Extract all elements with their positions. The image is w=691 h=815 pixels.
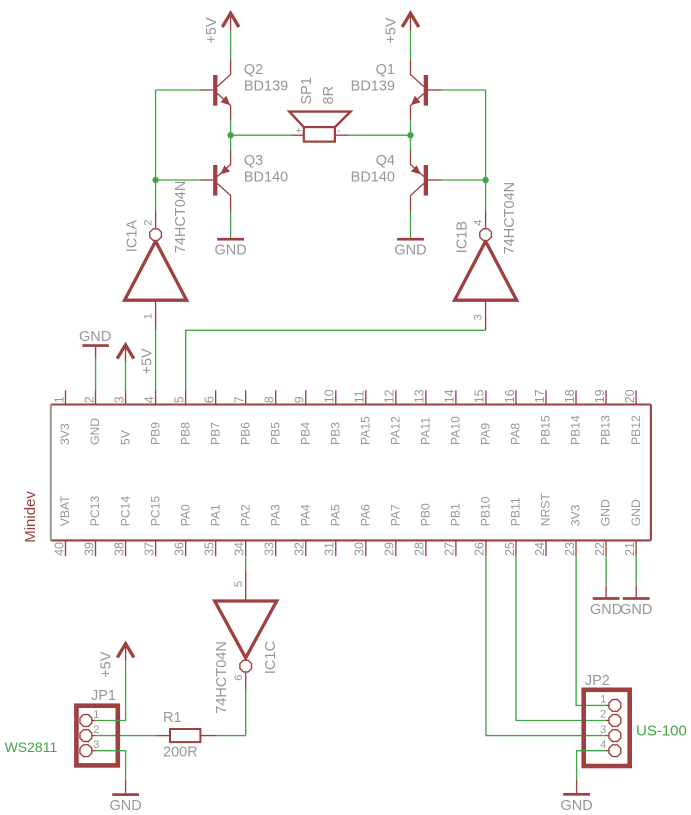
wire +5V to Q1 collector xyxy=(410,31,412,60)
svg-text:PB8: PB8 xyxy=(178,422,192,445)
svg-text:17: 17 xyxy=(533,389,547,403)
pin 15 PA9 (Minidev top) xyxy=(473,389,493,445)
wire Q2 emitter to node xyxy=(230,120,232,136)
svg-text:GND: GND xyxy=(599,499,613,526)
svg-text:JP1: JP1 xyxy=(91,688,116,704)
svg-text:74HCT04N: 74HCT04N xyxy=(502,182,518,255)
svg-text:R1: R1 xyxy=(163,710,182,726)
svg-text:37: 37 xyxy=(142,542,156,556)
svg-text:3: 3 xyxy=(473,314,485,320)
pin 34 PA2 (Minidev bottom) xyxy=(232,504,252,556)
label BD139 (Q1) xyxy=(351,79,395,95)
svg-text:WS2811: WS2811 xyxy=(5,739,58,755)
wire pin21 to GND xyxy=(635,556,637,586)
svg-text:5: 5 xyxy=(172,396,186,403)
pin 30 PA6 (Minidev bottom) xyxy=(353,504,373,556)
svg-text:PA6: PA6 xyxy=(359,504,373,526)
svg-text:Minidev: Minidev xyxy=(22,491,39,543)
svg-text:Q2: Q2 xyxy=(244,62,263,78)
transistor Q4 BD140 xyxy=(411,151,442,212)
svg-text:40: 40 xyxy=(52,542,66,556)
svg-text:6: 6 xyxy=(202,396,216,403)
svg-text:28: 28 xyxy=(413,542,427,556)
label JP1 xyxy=(91,688,116,704)
svg-text:GND: GND xyxy=(590,602,622,618)
wire Q4 base xyxy=(442,179,486,181)
wire JP1 pin2 to R1 xyxy=(96,735,157,737)
pin 5 PB8 (Minidev top) xyxy=(172,390,192,445)
pin 1 3V3 (Minidev top) xyxy=(52,390,72,445)
pin 14 PA10 (Minidev top) xyxy=(443,389,463,445)
svg-text:3V3: 3V3 xyxy=(58,423,72,445)
svg-text:4: 4 xyxy=(473,220,485,226)
pin 8 PB5 (Minidev top) xyxy=(263,390,283,445)
pin 27 PB1 (Minidev bottom) xyxy=(443,503,463,556)
svg-text:BD140: BD140 xyxy=(351,170,395,186)
transistor Q1 BD139 xyxy=(411,60,442,120)
ground under Q3 xyxy=(214,238,246,259)
svg-text:11: 11 xyxy=(353,390,367,403)
svg-text:20: 20 xyxy=(623,389,637,403)
pin 22 GND (Minidev bottom) xyxy=(593,499,613,556)
pin 26 PB10 (Minidev bottom) xyxy=(473,496,493,556)
svg-text:8: 8 xyxy=(263,396,277,403)
svg-text:PA4: PA4 xyxy=(298,504,312,526)
svg-text:+5V: +5V xyxy=(384,17,400,44)
svg-text:13: 13 xyxy=(413,389,427,403)
label JP2 xyxy=(585,673,610,689)
label 200R xyxy=(163,745,198,761)
label Q4 xyxy=(376,153,395,169)
resistor R1 xyxy=(156,729,217,742)
svg-text:36: 36 xyxy=(172,542,186,556)
svg-text:24: 24 xyxy=(533,542,547,556)
pin 4 PB9 (Minidev top) xyxy=(142,390,162,445)
pin 36 PA0 (Minidev bottom) xyxy=(172,504,192,556)
svg-text:Q4: Q4 xyxy=(376,153,395,169)
wire Q3 emitter to node xyxy=(230,135,232,150)
svg-text:12: 12 xyxy=(383,389,397,403)
svg-text:PB5: PB5 xyxy=(268,422,282,445)
pin 18 PB14 (Minidev top) xyxy=(563,389,583,445)
pin 40 VBAT (Minidev bottom) xyxy=(52,495,72,556)
label Q2 xyxy=(244,62,263,78)
svg-text:3: 3 xyxy=(93,739,99,751)
transistor Q3 BD140 xyxy=(199,151,230,212)
ground below JP1 xyxy=(109,780,141,814)
wire Q4 emitter to node xyxy=(410,135,412,150)
svg-text:9: 9 xyxy=(293,396,307,403)
svg-text:GND: GND xyxy=(560,798,592,814)
node junction left bases xyxy=(152,177,158,183)
svg-text:35: 35 xyxy=(202,542,216,556)
wire IC1A output to PB9 xyxy=(155,330,157,390)
svg-text:19: 19 xyxy=(593,389,607,403)
svg-text:PA2: PA2 xyxy=(238,504,252,526)
svg-text:+5V: +5V xyxy=(204,17,220,44)
svg-text:GND: GND xyxy=(394,243,426,259)
svg-text:GND: GND xyxy=(214,243,246,259)
svg-text:7: 7 xyxy=(232,396,246,403)
wire right base rail xyxy=(485,90,487,211)
pin 9 PB4 (Minidev top) xyxy=(293,390,313,445)
svg-text:26: 26 xyxy=(473,542,487,556)
svg-text:23: 23 xyxy=(563,542,577,556)
svg-text:32: 32 xyxy=(293,542,307,556)
wire node to speaker left xyxy=(231,134,291,136)
svg-text:PB14: PB14 xyxy=(569,415,583,445)
connector JP2 xyxy=(584,690,630,766)
svg-text:Q1: Q1 xyxy=(376,62,395,78)
wire IC1C output down xyxy=(245,689,247,735)
pin 17 PB15 (Minidev top) xyxy=(533,389,553,445)
svg-text:39: 39 xyxy=(82,542,96,556)
svg-text:38: 38 xyxy=(112,542,126,556)
svg-text:PB0: PB0 xyxy=(419,503,433,526)
svg-text:15: 15 xyxy=(473,389,487,403)
pin 28 PB0 (Minidev bottom) xyxy=(413,503,433,556)
pin 31 PA5 (Minidev bottom) xyxy=(323,504,343,556)
svg-text:+5V: +5V xyxy=(99,651,115,678)
svg-text:GND: GND xyxy=(109,798,141,814)
wire Q2 base xyxy=(156,89,200,91)
svg-text:31: 31 xyxy=(323,542,337,556)
svg-text:74HCT04N: 74HCT04N xyxy=(214,641,230,714)
svg-text:PB15: PB15 xyxy=(539,415,553,445)
node junction right bases xyxy=(482,177,488,183)
svg-text:PA7: PA7 xyxy=(389,504,403,526)
svg-text:34: 34 xyxy=(232,542,246,556)
svg-text:74HCT04N: 74HCT04N xyxy=(173,181,189,254)
svg-text:PB1: PB1 xyxy=(449,503,463,526)
power +5V above pin 3 xyxy=(117,345,156,375)
svg-text:5V: 5V xyxy=(118,429,132,445)
svg-text:PB3: PB3 xyxy=(328,422,342,445)
ground below pin 22 xyxy=(590,586,622,618)
label 74HCT04N (IC1C) xyxy=(214,641,230,714)
ground below JP2 xyxy=(560,780,592,814)
svg-text:BD139: BD139 xyxy=(351,79,395,95)
label BD139 (Q2) xyxy=(244,79,288,95)
svg-text:6: 6 xyxy=(233,675,245,681)
pin 2 GND (Minidev top) xyxy=(82,390,102,445)
svg-text:VBAT: VBAT xyxy=(58,495,72,526)
label pin 5 (IC1C) xyxy=(233,581,245,587)
svg-text:JP2: JP2 xyxy=(585,673,610,689)
svg-text:33: 33 xyxy=(263,542,277,556)
svg-text:18: 18 xyxy=(563,389,577,403)
pin 32 PA4 (Minidev bottom) xyxy=(293,504,313,556)
label IC1A xyxy=(125,220,141,253)
label 74HCT04N (IC1B) xyxy=(502,182,518,255)
pin 11 PA15 (Minidev top) xyxy=(353,390,373,445)
svg-text:2: 2 xyxy=(93,724,99,736)
svg-text:3: 3 xyxy=(112,396,126,403)
wire IC1C output to R1 xyxy=(217,735,246,737)
wire left base rail xyxy=(155,90,157,211)
svg-text:GND: GND xyxy=(88,418,102,445)
wire Q4 collector to GND xyxy=(410,212,412,238)
svg-text:+: + xyxy=(296,125,302,137)
wire pin22 to GND xyxy=(605,556,607,586)
wire GND to pin 2 xyxy=(95,358,97,391)
svg-text:GND: GND xyxy=(620,602,652,618)
pin 39 PC13 (Minidev bottom) xyxy=(82,496,102,557)
svg-text:PB13: PB13 xyxy=(599,415,613,445)
svg-text:PB6: PB6 xyxy=(238,422,252,445)
svg-text:2: 2 xyxy=(142,220,154,226)
node junction right emitters xyxy=(407,132,413,138)
svg-text:IC1B: IC1B xyxy=(455,221,471,253)
svg-text:1: 1 xyxy=(600,694,606,706)
svg-text:200R: 200R xyxy=(163,745,198,761)
svg-text:29: 29 xyxy=(383,542,397,556)
svg-text:8R: 8R xyxy=(321,86,337,105)
wire JP1 pin1 to +5V xyxy=(96,661,126,720)
pin 7 PB6 (Minidev top) xyxy=(232,390,252,445)
svg-text:30: 30 xyxy=(353,542,367,556)
svg-text:PA10: PA10 xyxy=(449,416,463,445)
speaker SP1 8R xyxy=(289,112,350,142)
svg-text:1: 1 xyxy=(93,709,99,721)
svg-text:3: 3 xyxy=(600,724,606,736)
pin 3 5V (Minidev top) xyxy=(112,390,132,445)
label SP1 xyxy=(299,77,315,104)
wire Q1 emitter to node xyxy=(410,120,412,136)
svg-text:PB4: PB4 xyxy=(298,422,312,445)
pin 23 3V3 (Minidev bottom) xyxy=(563,504,583,556)
wire Q3 collector to GND xyxy=(230,212,232,238)
ground below pin 21 xyxy=(620,586,652,618)
power +5V above JP1 xyxy=(99,644,134,678)
svg-text:4: 4 xyxy=(142,396,156,403)
label 8R xyxy=(321,86,337,105)
svg-text:IC1C: IC1C xyxy=(263,641,279,674)
pin 25 PB11 (Minidev bottom) xyxy=(503,497,523,556)
svg-text:PC15: PC15 xyxy=(148,496,162,527)
svg-text:PB7: PB7 xyxy=(208,422,222,445)
svg-text:PC14: PC14 xyxy=(118,496,132,527)
pin 33 PA3 (Minidev bottom) xyxy=(263,504,283,556)
net label US-100 xyxy=(636,722,687,739)
svg-text:21: 21 xyxy=(623,542,637,556)
label IC1C xyxy=(263,641,279,674)
svg-text:PA12: PA12 xyxy=(389,416,403,445)
svg-text:PA11: PA11 xyxy=(419,417,433,445)
pin 19 PB13 (Minidev top) xyxy=(593,389,613,445)
svg-text:PA1: PA1 xyxy=(208,504,222,526)
pin 10 PB3 (Minidev top) xyxy=(323,389,343,445)
wire IC1B output to PB8 xyxy=(186,330,486,390)
label IC1B xyxy=(455,221,471,253)
label pin 1 (IC1A) xyxy=(142,313,154,319)
pin 37 PC15 (Minidev bottom) xyxy=(142,496,162,557)
wire 3V3 (pin23) to JP2 pin1 xyxy=(576,556,605,705)
IC U-Minidev box xyxy=(51,405,651,541)
wire PB11 (pin25) to JP2 pin2 xyxy=(516,556,605,720)
ground under Q4 xyxy=(394,238,426,259)
svg-text:PA15: PA15 xyxy=(359,416,373,445)
wire +5V to Q2 collector xyxy=(230,31,232,60)
pin 21 GND (Minidev bottom) xyxy=(623,499,643,556)
svg-text:-: - xyxy=(337,125,341,137)
pin 16 PA8 (Minidev top) xyxy=(503,389,523,445)
svg-text:PB10: PB10 xyxy=(479,496,493,526)
svg-text:GND: GND xyxy=(629,499,643,526)
svg-text:25: 25 xyxy=(503,542,517,556)
power +5V supply symbol (right) xyxy=(384,13,419,43)
svg-text:14: 14 xyxy=(443,389,457,403)
pin 13 PA11 (Minidev top) xyxy=(413,389,433,445)
transistor Q2 BD139 xyxy=(199,60,230,120)
svg-text:PB9: PB9 xyxy=(148,422,162,445)
power +5V supply symbol (left) xyxy=(204,13,239,43)
pin 6 PB7 (Minidev top) xyxy=(202,390,222,445)
wire PB10 (pin26) to JP2 pin3 xyxy=(486,556,605,735)
svg-text:PA9: PA9 xyxy=(479,423,493,445)
svg-text:PA5: PA5 xyxy=(328,504,342,526)
svg-text:+5V: +5V xyxy=(140,348,156,375)
svg-text:PA8: PA8 xyxy=(509,423,523,445)
svg-text:1: 1 xyxy=(52,396,66,403)
node junction left emitters xyxy=(227,132,233,138)
connector JP1 xyxy=(76,706,117,766)
ground above pin 2 xyxy=(79,329,111,358)
wire PA2 (pin34) to IC1C input xyxy=(245,556,247,571)
label 74HCT04N (IC1A) xyxy=(173,181,189,254)
pin 29 PA7 (Minidev bottom) xyxy=(383,504,403,556)
svg-text:BD140: BD140 xyxy=(244,170,288,186)
svg-text:2: 2 xyxy=(82,396,96,403)
svg-text:PB12: PB12 xyxy=(629,415,643,445)
svg-text:3V3: 3V3 xyxy=(569,504,583,526)
svg-text:16: 16 xyxy=(503,389,517,403)
svg-text:NRST: NRST xyxy=(539,493,553,527)
label Minidev xyxy=(22,491,39,543)
wire Q1 base xyxy=(442,89,486,91)
label pin 4 (IC1B) xyxy=(473,220,485,226)
svg-text:GND: GND xyxy=(79,329,111,345)
pin 20 PB12 (Minidev top) xyxy=(623,389,643,445)
wire Q3 base xyxy=(156,179,200,181)
svg-text:PB11: PB11 xyxy=(509,497,523,526)
svg-text:PA3: PA3 xyxy=(268,504,282,526)
svg-text:4: 4 xyxy=(600,739,606,751)
label pin 3 (IC1B) xyxy=(473,314,485,320)
label Q3 xyxy=(244,153,263,169)
svg-text:PC13: PC13 xyxy=(88,496,102,527)
svg-text:PA0: PA0 xyxy=(178,504,192,526)
wire JP1 pin3 to GND xyxy=(96,751,126,780)
net label WS2811 xyxy=(5,739,58,755)
svg-text:Q3: Q3 xyxy=(244,153,263,169)
label pin 2 (IC1A) xyxy=(142,220,154,226)
pin 12 PA12 (Minidev top) xyxy=(383,389,403,445)
op-amp IC1C inverter 74HCT04N xyxy=(215,571,277,690)
svg-text:IC1A: IC1A xyxy=(125,220,141,253)
svg-text:10: 10 xyxy=(323,389,337,403)
pin 35 PA1 (Minidev bottom) xyxy=(202,504,222,556)
svg-text:1: 1 xyxy=(142,313,154,319)
label BD140 (Q3) xyxy=(244,170,288,186)
label Q1 xyxy=(376,62,395,78)
pin 24 NRST (Minidev bottom) xyxy=(533,493,553,557)
label pin 6 (IC1C) xyxy=(233,675,245,681)
svg-text:BD139: BD139 xyxy=(244,79,288,95)
label R1 xyxy=(163,710,182,726)
wire +5V to pin 3 xyxy=(125,362,127,390)
svg-text:27: 27 xyxy=(443,542,457,556)
svg-text:5: 5 xyxy=(233,581,245,587)
svg-text:SP1: SP1 xyxy=(299,77,315,104)
op-amp IC1B inverter 74HCT04N xyxy=(455,211,517,330)
pin 38 PC14 (Minidev bottom) xyxy=(112,496,132,557)
svg-text:2: 2 xyxy=(600,709,606,721)
wire speaker right to node xyxy=(348,134,410,136)
wire JP2 pin4 to GND xyxy=(577,751,606,780)
svg-text:US-100: US-100 xyxy=(636,722,687,739)
svg-text:22: 22 xyxy=(593,542,607,556)
op-amp IC1A inverter 74HCT04N xyxy=(125,211,187,330)
label BD140 (Q4) xyxy=(351,170,395,186)
